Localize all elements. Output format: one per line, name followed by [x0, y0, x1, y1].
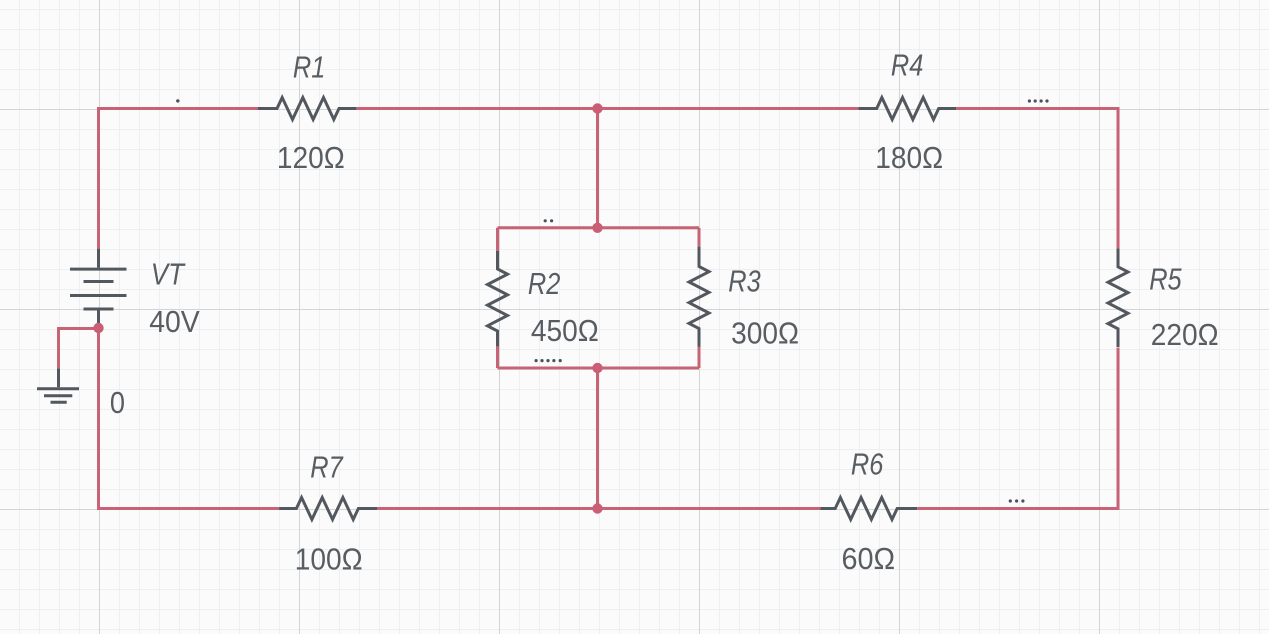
resistor R3	[689, 247, 709, 347]
wire: bottom-center junction to R7	[377, 507, 598, 510]
wire: parallel box bottom rail	[498, 367, 700, 370]
wire: box right top stub to R3	[698, 228, 701, 247]
wire: R6 to bottom-center junction	[598, 507, 821, 510]
junction: parallel box bottom node	[592, 363, 602, 373]
svg-text:R3: R3	[728, 263, 760, 298]
wire: R4 to top-right corner down to R5	[956, 109, 1118, 249]
svg-text:R1: R1	[293, 49, 325, 84]
node dots: box top marker	[544, 219, 547, 222]
resistor R6	[820, 498, 917, 520]
svg-text:180Ω: 180Ω	[875, 140, 943, 175]
resistor R5	[1108, 248, 1128, 347]
wire: R5 down to bottom-right corner, left to R6	[917, 348, 1118, 509]
svg-text:100Ω: 100Ω	[295, 541, 363, 576]
node dot: top-left wire marker	[176, 99, 179, 102]
junction: battery negative / ground node	[93, 323, 103, 333]
resistor R2	[488, 251, 508, 346]
wire: R3 bottom stub	[698, 347, 701, 368]
wire: box bottom junction down to bottom wire	[596, 368, 599, 509]
svg-text:220Ω: 220Ω	[1151, 317, 1219, 352]
resistor R1	[258, 98, 356, 120]
wire: box left top stub to R2	[496, 228, 499, 251]
wire: top-center junction to R4	[598, 107, 859, 110]
svg-text:450Ω: 450Ω	[531, 313, 599, 348]
svg-text:60Ω: 60Ω	[842, 541, 896, 576]
wire: top-center junction down to parallel box top	[596, 109, 599, 228]
wire: R7 left to bottom-left corner, up to battery negative node	[99, 328, 280, 509]
resistor R4	[858, 98, 956, 120]
node dots: box bottom marker	[535, 359, 538, 362]
wire: battery negative node to ground branch	[59, 329, 99, 369]
junction: bottom-center node	[592, 503, 602, 513]
wire: battery positive terminal up to top-left corner, right to R1	[99, 109, 259, 249]
svg-text:R5: R5	[1149, 262, 1182, 297]
svg-text:R7: R7	[310, 449, 344, 484]
junction: parallel box top node	[592, 223, 602, 233]
ground	[37, 368, 79, 402]
svg-text:120Ω: 120Ω	[277, 140, 345, 175]
svg-text:VT: VT	[151, 256, 186, 291]
node dots: top-right wire marker	[1028, 99, 1031, 102]
wire: parallel box top rail	[498, 226, 700, 229]
svg-text:R6: R6	[851, 446, 884, 481]
node dots: bottom-right wire marker	[1009, 499, 1012, 502]
svg-text:R4: R4	[891, 48, 923, 83]
svg-text:R2: R2	[528, 266, 560, 301]
resistor R7	[279, 498, 377, 520]
wire: R1 to top-center junction	[356, 107, 597, 110]
svg-text:40V: 40V	[149, 304, 200, 339]
svg-text:300Ω: 300Ω	[731, 315, 799, 350]
junction: top-center node	[592, 103, 602, 113]
wire: R2 bottom stub	[496, 346, 499, 368]
battery VT	[70, 249, 127, 324]
svg-text:0: 0	[110, 385, 125, 420]
